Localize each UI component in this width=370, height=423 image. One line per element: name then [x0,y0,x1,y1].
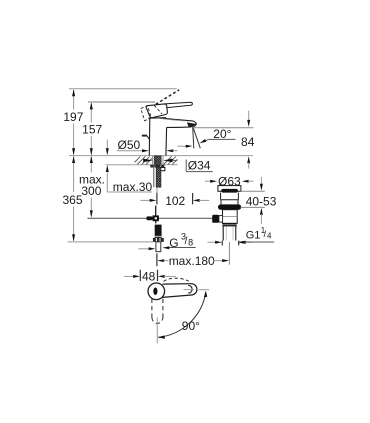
waste centerline tick [228,242,230,265]
top view: knob circle [148,283,165,300]
deck bottom line left [106,164,152,166]
waste tailpipe [222,226,224,240]
faucet lever knob inner dashed line [154,105,162,114]
faucet lever knob hidden edge (dashed) [141,106,152,121]
top view: swivel reference line [198,289,209,291]
dimension 40-53 lower arrow [260,208,263,215]
tailpipe ticks [221,241,223,246]
svg-text:8: 8 [188,237,193,247]
extension line knob-top (157 top) [88,101,155,103]
tailpipe diameter arrow left [208,241,217,243]
top view: raised lever dashed arc [164,278,189,281]
dimension max180 left tick [156,253,158,266]
extension line spout level [194,127,254,129]
arrowheads 157 [90,102,93,109]
dimension max30: lower arrow + leader [106,165,109,172]
faucet centerline tick (102 left) [156,193,158,205]
dimension 102 left arrow [141,199,151,201]
svg-text:Ø63: Ø63 [218,174,241,188]
extension line lever-top (197 top) [69,88,177,90]
arrowheads max300 [90,156,93,163]
supply nut [153,238,164,242]
dimension max30: upper arrow [106,140,108,149]
arc arrow bottom [158,335,165,338]
extension line flange top [241,190,265,192]
counter top line [69,155,253,157]
waste rod knob [212,215,219,223]
dimension max180 right arrow [213,260,223,262]
tailpipe diameter arrow right [239,241,246,244]
top view: knob slot [153,288,157,295]
stream line 20 degrees [193,127,200,148]
angle arrow left [178,145,187,147]
stream reference line vertical [193,127,194,148]
top view: lever arm inner cap [188,285,192,293]
top view: dimension 48 [124,275,135,277]
supply stud G3/8 [155,225,162,238]
rod clamp screw left [146,216,152,220]
supply thread stub [156,242,161,252]
dimension Ø50 arrow right [166,149,173,152]
hose line left of rod [153,165,155,187]
faucet spout inner line [161,119,185,121]
dimension 84 upper arrow [248,111,250,121]
svg-text:40-53: 40-53 [246,194,277,208]
dimension 102 right arrow [193,199,200,202]
svg-text:48: 48 [142,270,156,284]
faucet lever raised (dashed) [156,90,179,105]
top view: lever arm [163,284,197,298]
deck hatching left [135,156,153,164]
pop-up rod vertical [155,206,157,224]
svg-text:max.180: max.180 [169,254,215,268]
svg-text:197: 197 [63,110,83,124]
waste flange rim [218,186,241,192]
faucet body [149,118,167,156]
waste flange neck [221,193,239,205]
waste o-ring [218,204,241,209]
svg-text:300: 300 [81,184,101,198]
stud diameter arrow left [138,248,150,250]
rod guide tab [160,168,165,171]
svg-text:102: 102 [165,194,185,208]
threaded rod knurled (below deck) [156,168,161,188]
dimension line 157/max300 vertical [90,103,92,216]
dimension 84 lower arrow [247,156,250,163]
svg-text:max.30: max.30 [113,180,153,194]
faucet aerator [187,122,196,127]
svg-text:84: 84 [241,135,255,149]
shank collar lines [151,156,153,164]
pop-up rod horizontal [87,217,212,219]
dimension 40-53 upper arrow [260,177,262,184]
label Ø34 box [185,160,187,172]
svg-text:Ø50: Ø50 [118,138,141,152]
svg-text:365: 365 [62,193,82,207]
dimension Ø63 [205,180,212,182]
top view: down reference line [156,317,158,343]
faucet lever knob [146,104,167,118]
dimension Ø34 arrows in deck [143,159,152,163]
arrowheads 365 [72,156,75,163]
svg-text:90°: 90° [182,319,200,333]
body left marker [142,135,147,137]
deck hatching right [164,156,178,164]
arrowheads 197 [72,89,75,96]
dimension max180 left arrow [157,259,164,262]
spout tip tick (102 right) [192,193,194,204]
faucet spout [159,118,196,128]
extension line 365 bottom [68,241,153,243]
svg-text:157: 157 [82,122,102,136]
svg-text:G1: G1 [246,229,261,241]
rod clamp junction [153,215,159,221]
waste lower band [222,223,236,226]
waste body [223,210,238,224]
top view: lever down position dashed [152,299,163,324]
mounting locknut [150,165,164,168]
arc arrow top [204,291,207,298]
top view: arm centerline [184,289,195,291]
deck bottom line right [164,164,178,166]
dimension line 197/365 vertical [73,90,75,241]
faucet lever blade [165,102,193,107]
extension line oring top [241,206,265,208]
mounting shank knurled (above deck) [154,156,161,165]
svg-text:Ø34: Ø34 [188,159,211,173]
waste flange top surface [221,189,238,193]
svg-text:4: 4 [267,231,272,240]
90 degree arc [158,292,206,337]
centerline below rod [156,187,158,193]
